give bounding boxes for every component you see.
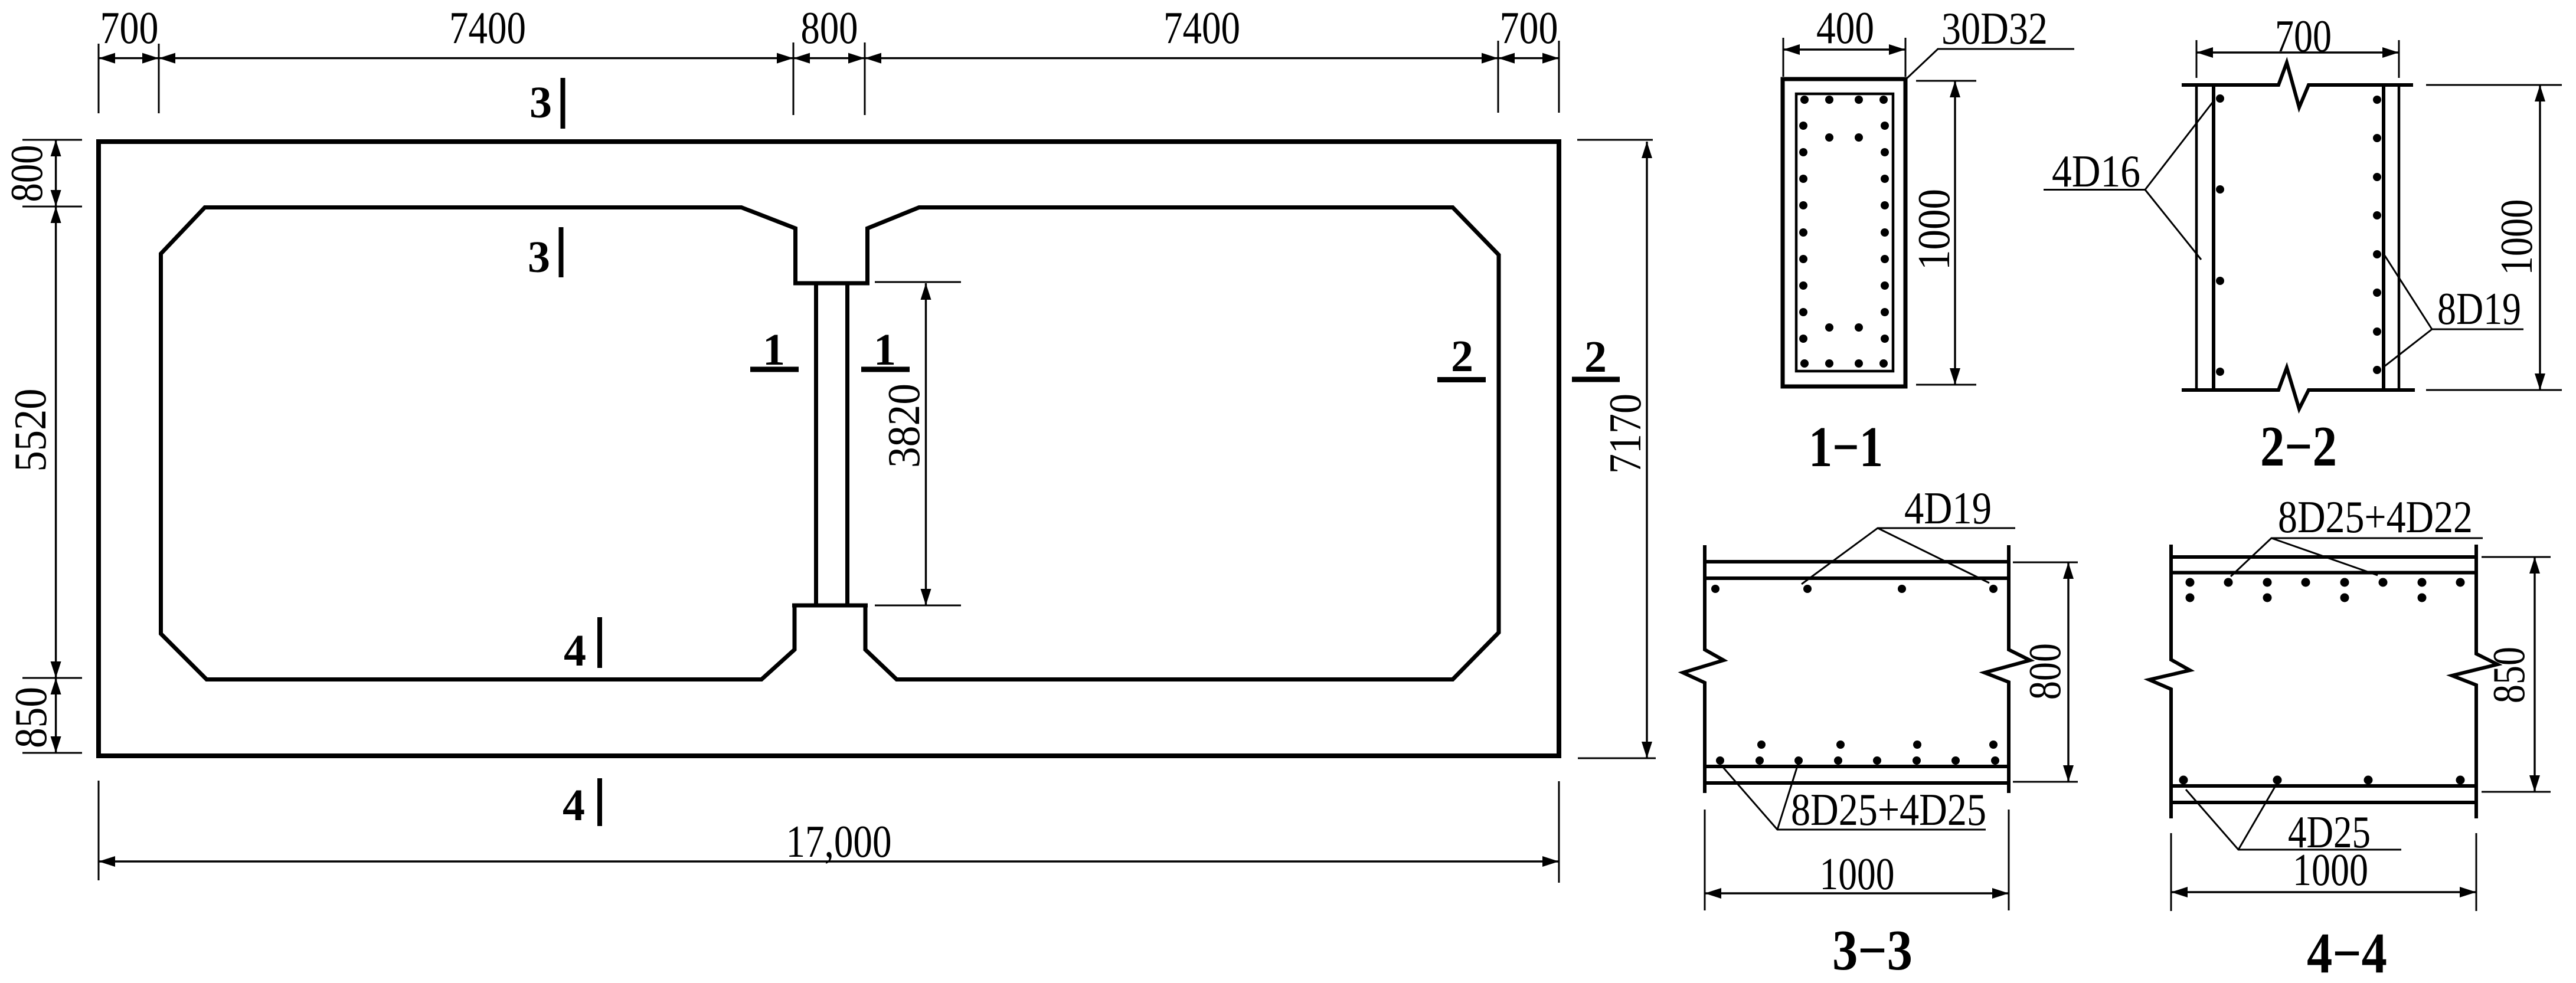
extension line y=1285 right — [1578, 758, 1656, 759]
extension line x=269 — [158, 44, 160, 113]
svg-text:1000: 1000 — [1908, 189, 1959, 270]
extension line x=3678 — [2170, 833, 2172, 911]
plan outer slab rectangle — [99, 142, 1559, 756]
leader 4D25 — [2186, 785, 2401, 850]
extension line y=661 right — [2426, 389, 2562, 391]
section 1-1 1000 dimension line — [1954, 81, 1956, 385]
arrows 1000 section 4-4 — [2171, 887, 2188, 897]
arrows 400 — [1783, 44, 1800, 55]
extension line x=3021 — [1783, 38, 1784, 77]
section 3-3 bottom line 2 — [1705, 781, 2009, 785]
section 2-2 1000 dimension line — [2539, 85, 2541, 390]
extension line x=2888 — [1704, 810, 1706, 910]
svg-text:3−3: 3−3 — [1832, 919, 1913, 982]
arrows 800 section 3-3 — [2063, 562, 2074, 579]
extension line x=2641 — [1558, 41, 1560, 113]
extension line x=2641 bottom — [1558, 781, 1560, 883]
section 3-3 right edge with break — [1985, 545, 2030, 793]
extension line x=3721 — [2196, 40, 2198, 78]
arrows 1000 section 3-3 — [1705, 888, 1721, 899]
section mark 1 left underline — [750, 367, 799, 372]
svg-text:800: 800 — [1, 145, 52, 202]
svg-text:4: 4 — [563, 781, 585, 830]
extension line x=1465 — [864, 42, 866, 115]
svg-text:3: 3 — [528, 232, 550, 282]
section 1-1 stirrup rect — [1796, 94, 1893, 371]
arrows 850 section 4-4 — [2529, 557, 2540, 574]
extension line y=1342 — [2482, 791, 2551, 793]
section 4-4 top dots 8D25+4D22 — [2186, 578, 2465, 602]
extension line x=3228 — [1905, 38, 1907, 77]
arrows 700 section 2-2 — [2196, 47, 2213, 58]
section 2-2 right dots 8D19 — [2373, 96, 2381, 374]
arrows top chain — [99, 53, 115, 64]
section mark 4 bottom bar — [597, 778, 602, 826]
svg-text:1000: 1000 — [1820, 848, 1895, 899]
extension line y=350 — [22, 206, 82, 208]
section 2-2 top slab line with break — [2182, 63, 2413, 107]
section mark 1 right underline — [861, 367, 910, 372]
svg-text:2: 2 — [1584, 332, 1607, 382]
extension line x=167 — [98, 44, 100, 113]
svg-text:700: 700 — [2275, 11, 2332, 61]
left dimension chain line — [55, 140, 57, 753]
svg-text:7170: 7170 — [1600, 394, 1650, 474]
leader 8D25+4D25 — [1721, 764, 1986, 830]
extension line y=237 — [22, 139, 82, 141]
extension line x=1344 — [793, 42, 795, 115]
section 3-3 800 dimension line — [2067, 562, 2069, 782]
section 4-4 left edge with break — [2149, 545, 2190, 818]
section 2-2 left wall outer line — [2195, 85, 2198, 390]
section 2-2 left dots 4D16 — [2216, 94, 2224, 376]
section 4-4 1000 dimension line — [2171, 891, 2476, 893]
section mark 3 inner bar — [559, 227, 564, 277]
leader 4D19 — [1802, 528, 2015, 584]
section 2-2 right wall outer line — [2398, 85, 2401, 390]
section 2-2 bottom slab line with break — [2182, 368, 2415, 409]
section 4-4 bottom line 2 — [2171, 801, 2476, 804]
section 3-3 top line 2 — [1705, 576, 2009, 580]
svg-text:1−1: 1−1 — [1809, 415, 1883, 479]
svg-text:700: 700 — [100, 2, 159, 53]
svg-text:17,000: 17,000 — [786, 816, 892, 867]
arrows 1000 section 2-2 — [2535, 85, 2545, 101]
svg-text:8D19: 8D19 — [2437, 283, 2521, 334]
section mark 2 outer underline — [1572, 377, 1620, 382]
svg-text:2−2: 2−2 — [2260, 415, 2337, 478]
extension line y=1325 — [2013, 781, 2078, 783]
svg-text:3820: 3820 — [878, 384, 929, 468]
svg-text:800: 800 — [801, 2, 858, 53]
extension line y=144 right — [2426, 84, 2562, 86]
top dimension line — [99, 57, 1559, 59]
svg-text:4D19: 4D19 — [1904, 483, 1992, 533]
section mark 4 inner bar — [597, 617, 602, 668]
central 3820 dimension line — [925, 283, 927, 605]
section 4-4 850 dimension line — [2533, 557, 2535, 792]
section 3-3 top dots 4D19 — [1711, 585, 1998, 593]
extension line y=944 — [2482, 556, 2551, 558]
section 2-2 right wall inner line — [2382, 85, 2385, 390]
arrows 3820 — [921, 283, 931, 300]
right 7170 dimension line — [1646, 142, 1647, 758]
extension line y=1149 — [22, 677, 82, 679]
extension line y=137 — [1916, 80, 1976, 82]
extension line x=2538 — [1498, 41, 1499, 113]
extension line y=1026 central — [875, 605, 961, 607]
leader 8D19 — [2384, 254, 2523, 367]
arrows 7170 — [1642, 142, 1652, 158]
extension line y=652 — [1916, 384, 1976, 386]
svg-text:30D32: 30D32 — [1941, 3, 2048, 54]
svg-text:1000: 1000 — [2293, 844, 2368, 895]
leader 4D16 — [2044, 100, 2214, 260]
right chamber opening outline — [848, 208, 1499, 680]
bottom 17,000 dimension line — [99, 860, 1559, 862]
section 2-2 left wall inner line — [2212, 85, 2215, 390]
extension line y=478 central — [875, 281, 961, 283]
extension line x=167 bottom — [98, 781, 100, 880]
section 3-3 bottom dots 8D25+4D25 — [1716, 740, 1999, 765]
section 4-4 bottom line 1 — [2171, 784, 2476, 788]
section 3-3 left edge with break — [1683, 545, 1724, 793]
svg-text:4−4: 4−4 — [2307, 922, 2387, 983]
left chamber opening outline — [161, 208, 816, 680]
arrows 1000 section 1-1 — [1950, 81, 1960, 97]
svg-text:400: 400 — [1816, 2, 1874, 53]
section 2-2 700 dimension line — [2196, 51, 2399, 53]
svg-text:700: 700 — [1500, 2, 1558, 53]
extension line x=3403 — [2008, 810, 2010, 910]
extension line y=1276 — [22, 752, 82, 754]
svg-text:2: 2 — [1451, 332, 1473, 381]
svg-text:1000: 1000 — [2491, 199, 2542, 276]
section 4-4 top line 2 — [2171, 571, 2476, 575]
section 3-3 bottom line 1 — [1705, 765, 2009, 768]
svg-text:8D25+4D25: 8D25+4D25 — [1791, 784, 1986, 835]
svg-text:4: 4 — [564, 626, 586, 676]
extension line y=237 right — [1577, 139, 1653, 141]
section 4-4 right edge with break — [2452, 545, 2497, 818]
arrows 17,000 — [99, 856, 115, 867]
bottom diaphragm top edge — [792, 604, 868, 608]
svg-text:7400: 7400 — [1163, 2, 1240, 53]
svg-text:8D25+4D22: 8D25+4D22 — [2278, 491, 2473, 542]
svg-text:800: 800 — [2019, 643, 2070, 700]
svg-text:3: 3 — [529, 78, 552, 127]
section 1-1 rebar dots 30D32 — [1799, 96, 1889, 368]
top diaphragm bottom edge — [793, 281, 869, 286]
leader 8D25+4D22 — [2231, 538, 2483, 576]
section mark 2 inner underline — [1437, 377, 1486, 382]
extension line y=953 — [2013, 562, 2078, 563]
section mark 3 top bar — [561, 78, 565, 129]
svg-text:5520: 5520 — [5, 389, 55, 472]
arrows left chain — [51, 140, 61, 156]
section 3-3 top line 1 — [1705, 560, 2009, 563]
section 3-3 1000 dimension line — [1705, 892, 2009, 894]
svg-text:7400: 7400 — [449, 2, 526, 53]
leader 30D32 — [1905, 49, 2074, 80]
section 1-1 outer rect — [1783, 79, 1905, 386]
section 4-4 top line 1 — [2171, 555, 2476, 559]
svg-text:850: 850 — [2483, 647, 2534, 703]
section 4-4 bottom dots 4D25 — [2179, 776, 2465, 785]
svg-text:850: 850 — [5, 687, 56, 748]
extension line x=4195 — [2476, 833, 2477, 911]
extension line x=4064 — [2398, 40, 2400, 78]
section 1-1 400 dimension line — [1783, 48, 1905, 50]
